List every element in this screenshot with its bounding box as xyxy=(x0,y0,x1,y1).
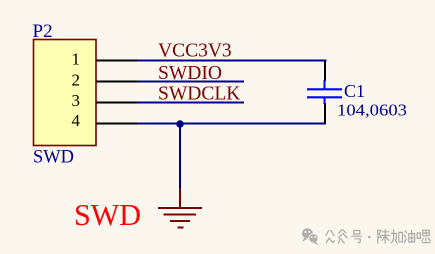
svg-text:2: 2 xyxy=(72,71,81,90)
svg-text:104,0603: 104,0603 xyxy=(337,101,407,120)
svg-text:SWD: SWD xyxy=(74,197,141,232)
svg-text:SWDIO: SWDIO xyxy=(158,63,222,84)
svg-text:VCC3V3: VCC3V3 xyxy=(158,41,232,62)
svg-text:P2: P2 xyxy=(33,21,53,42)
svg-text:3: 3 xyxy=(72,91,81,110)
svg-text:1: 1 xyxy=(72,50,81,69)
svg-text:SWDCLK: SWDCLK xyxy=(158,84,240,105)
svg-text:4: 4 xyxy=(72,111,81,130)
svg-text:SWD: SWD xyxy=(33,147,74,168)
svg-text:C1: C1 xyxy=(344,81,365,101)
